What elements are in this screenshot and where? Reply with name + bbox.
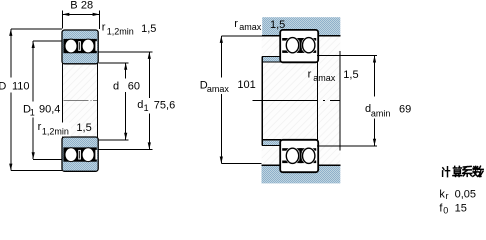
dimension d: line and extensions bbox=[99, 63, 129, 140]
cage slot right lower bbox=[95, 150, 97, 160]
lower bearing section box bbox=[62, 137, 98, 171]
arrow B left bbox=[62, 13, 69, 16]
ball right-view upper right bbox=[303, 38, 315, 53]
shaft shoulder upper-left (blue strip) bbox=[262, 57, 281, 62]
cage bar lower middle bbox=[78, 151, 81, 159]
centerline axis left view bbox=[64, 99, 99, 101]
svg-text:d: d bbox=[113, 81, 119, 93]
svg-text:1: 1 bbox=[30, 108, 35, 118]
CJK title 计算系数 drawn as strokes bbox=[443, 166, 484, 176]
dimension Damax bbox=[221, 36, 262, 164]
arrow d1 top bbox=[148, 52, 151, 59]
dimension D1: line and extensions bbox=[33, 41, 62, 159]
housing upper bore border left bbox=[262, 35, 281, 37]
bore hatch column between section halves bbox=[63, 63, 97, 138]
svg-text:r: r bbox=[234, 18, 238, 30]
arrow D bottom bbox=[9, 164, 12, 171]
lower ball pocket (black) bbox=[63, 147, 96, 161]
ring silhouette line left bbox=[61, 64, 63, 138]
arrow D top bbox=[9, 29, 12, 36]
svg-text:75,6: 75,6 bbox=[154, 100, 175, 112]
dimension B: extension lines bbox=[62, 11, 99, 29]
ball halo upper right bbox=[301, 36, 316, 54]
cage slot between balls lower bbox=[78, 150, 81, 160]
arrow D1 bottom bbox=[32, 152, 35, 159]
ring silhouette line right bbox=[97, 64, 99, 138]
ball upper left bbox=[65, 39, 77, 53]
svg-text:1,2min: 1,2min bbox=[42, 126, 69, 136]
svg-text:B: B bbox=[70, 0, 77, 12]
ball upper right bbox=[82, 39, 94, 53]
ball right-view upper left bbox=[286, 38, 298, 53]
bearing upper box right view bbox=[280, 30, 318, 62]
arrow D1 top bbox=[32, 41, 35, 48]
svg-text:amax: amax bbox=[313, 73, 336, 83]
housing lower bore border right bbox=[317, 164, 341, 166]
数 bbox=[473, 166, 483, 176]
cage slot right upper bbox=[95, 41, 97, 51]
svg-text:28: 28 bbox=[81, 0, 93, 12]
inner ring right face silhouette bbox=[317, 62, 319, 140]
svg-text:amax: amax bbox=[239, 22, 262, 32]
housing upper bore border right bbox=[317, 35, 341, 37]
svg-text:0,05: 0,05 bbox=[455, 188, 476, 200]
svg-text:k: k bbox=[439, 188, 445, 200]
shaft broken end right bbox=[339, 51, 341, 151]
svg-text:r: r bbox=[102, 21, 106, 33]
svg-text:1,5: 1,5 bbox=[76, 122, 91, 134]
svg-text:1: 1 bbox=[144, 103, 149, 113]
算 bbox=[453, 166, 462, 176]
shaft left face bbox=[261, 56, 263, 145]
svg-text:1,5: 1,5 bbox=[270, 19, 285, 31]
svg-text:D: D bbox=[0, 81, 6, 93]
svg-text:90,4: 90,4 bbox=[39, 104, 60, 116]
cage bar right-view upper bbox=[299, 38, 302, 53]
upper ball pocket (black) bbox=[63, 39, 96, 53]
arrow damin bottom bbox=[373, 139, 376, 146]
svg-text:60: 60 bbox=[128, 81, 140, 93]
arrow d top bbox=[124, 63, 127, 70]
ball halo upper left bbox=[285, 36, 300, 54]
svg-text:amax: amax bbox=[207, 84, 230, 94]
arrow d bottom bbox=[124, 133, 127, 140]
ball halo lower left bbox=[285, 147, 300, 165]
dimension damin bbox=[317, 56, 377, 146]
计 bbox=[443, 167, 450, 177]
housing upper (blue) bbox=[262, 17, 340, 36]
outer raceway band upper bbox=[282, 38, 316, 41]
svg-text:d: d bbox=[137, 99, 143, 111]
svg-text:1,5: 1,5 bbox=[141, 23, 156, 35]
ball halo lower right bbox=[301, 147, 316, 165]
svg-text:15: 15 bbox=[455, 202, 467, 214]
housing lower bore border left bbox=[262, 164, 282, 166]
ball right-view lower right bbox=[303, 148, 315, 163]
svg-text:1,5: 1,5 bbox=[343, 69, 358, 81]
svg-text:69: 69 bbox=[399, 104, 411, 116]
upper bearing section box bbox=[62, 30, 98, 64]
svg-text:1,2min: 1,2min bbox=[107, 26, 134, 36]
bearing lower box right view bbox=[280, 140, 318, 172]
svg-text:0: 0 bbox=[443, 206, 448, 216]
housing lower (blue) bbox=[262, 165, 341, 184]
shaft shoulder lower-left (blue strip) bbox=[262, 141, 281, 145]
svg-text:101: 101 bbox=[237, 79, 255, 91]
inner raceway band lower bbox=[282, 148, 316, 151]
arrow damin top bbox=[373, 56, 376, 63]
arrow Damax bottom bbox=[220, 157, 223, 164]
系 bbox=[463, 166, 472, 176]
arrow Damax top bbox=[220, 36, 223, 43]
dimension d1: line and extensions bbox=[99, 52, 153, 150]
cage bar upper middle bbox=[78, 42, 81, 50]
ball lower left bbox=[65, 148, 77, 162]
cage slot between balls upper bbox=[78, 41, 81, 51]
svg-text:amin: amin bbox=[371, 109, 391, 119]
arrow d1 bottom bbox=[148, 142, 151, 149]
arrow B right bbox=[93, 13, 100, 16]
label r1,2min 1,5 lower bbox=[58, 123, 71, 137]
inner raceway band upper bbox=[282, 50, 316, 53]
dimension D: line and extensions bbox=[11, 29, 62, 171]
ball lower right bbox=[82, 148, 94, 162]
svg-text:r: r bbox=[308, 69, 312, 81]
hatch field bbox=[262, 37, 341, 165]
ball right-view lower left bbox=[286, 148, 298, 163]
cage bar right-view lower bbox=[299, 148, 302, 163]
centerline axis right view bbox=[252, 99, 340, 101]
svg-text:r: r bbox=[446, 191, 449, 201]
outer raceway band lower bbox=[282, 161, 316, 164]
svg-text:110: 110 bbox=[12, 81, 30, 93]
